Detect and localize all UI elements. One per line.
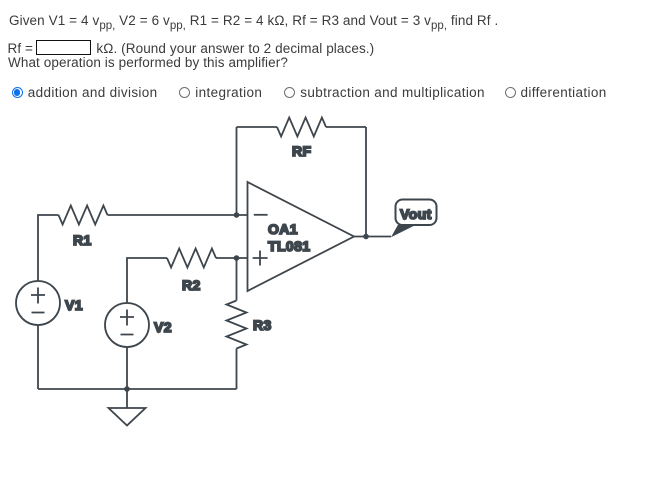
wire: R1 to op-amp inverting input [108, 214, 248, 216]
question line 1 [9, 13, 498, 30]
source V1 [16, 281, 60, 325]
wire: op-amp output to Vout flag [354, 236, 391, 238]
wire: junction down to R3 [236, 258, 238, 301]
ground [109, 408, 146, 426]
svg-text:RF: RF [292, 143, 312, 159]
wire: bottom ground rail [38, 388, 237, 390]
svg-text:R3: R3 [253, 317, 272, 333]
option 3 [284, 87, 485, 98]
label RF [292, 143, 312, 159]
source V2 [105, 303, 149, 347]
node: non-inverting input junction [234, 255, 240, 261]
svg-text:Vout: Vout [400, 206, 432, 222]
svg-text:OA1: OA1 [268, 221, 298, 237]
label V2 [154, 319, 172, 335]
svg-text:V2: V2 [154, 319, 172, 335]
resistor R2 [167, 249, 216, 268]
node: inverting input junction [234, 212, 240, 218]
svg-text:R2: R2 [182, 277, 201, 293]
label Vout [400, 206, 432, 222]
svg-text:V1: V1 [65, 297, 83, 313]
label R2 [182, 277, 201, 293]
net flag Vout box [396, 200, 437, 226]
svg-text:R1: R1 [73, 232, 92, 248]
wire: stub to ground symbol [126, 389, 128, 408]
wire: V1 bottom to rail [37, 325, 39, 389]
wire: feedback loop right vertical down to output [365, 127, 367, 237]
label TL081 [268, 238, 310, 254]
wire: V1 top to R1 left lead [38, 215, 59, 281]
wire: V2 bottom to rail [126, 347, 128, 389]
net flag Vout pointer [391, 225, 416, 238]
svg-text:TL081: TL081 [268, 238, 310, 254]
wire: R2 to op-amp non-inverting input [216, 257, 248, 259]
question line 3 [8, 55, 288, 71]
op-amp U1 OA1 TL081 [248, 182, 355, 291]
label V1 [65, 297, 83, 313]
wire: V2 top to R2 left lead [127, 258, 167, 303]
resistor R1 [59, 206, 108, 225]
node: output junction [363, 234, 369, 240]
wire: RF left lead [237, 126, 278, 128]
option 4 [505, 87, 607, 98]
wire: RF right lead [326, 126, 366, 128]
label R1 [73, 232, 92, 248]
option 2 [179, 87, 262, 98]
node: rail junction at V2/ground [124, 386, 130, 392]
wire: R3 bottom to ground rail [236, 349, 238, 390]
resistor RF [277, 118, 326, 137]
option 1 selected [12, 87, 158, 98]
label R3 [253, 317, 272, 333]
resistor R3 [227, 301, 247, 349]
question line 2 with answer box [8, 40, 375, 57]
wire: feedback loop left vertical (inverting node up to RF) [236, 127, 238, 215]
label OA1 [268, 221, 298, 237]
